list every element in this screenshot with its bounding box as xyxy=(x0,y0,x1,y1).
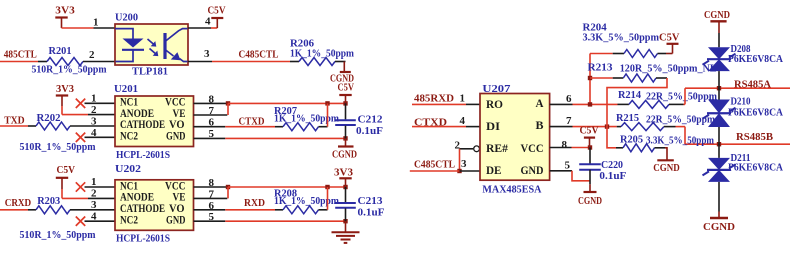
U200 phototransistor xyxy=(163,33,166,59)
U202 pin8 wire to 3V3 rail xyxy=(194,186,228,188)
svg-text:1K_1%_50ppm: 1K_1%_50ppm xyxy=(274,195,339,207)
svg-text:22R_5%_50ppm: 22R_5%_50ppm xyxy=(646,114,715,126)
svg-text:3.3K_5%_50ppm: 3.3K_5%_50ppm xyxy=(646,135,714,147)
ground CGND (C220) xyxy=(589,184,591,191)
U202 pin5 wire to ground rail xyxy=(194,220,226,222)
svg-text:1K_1%_50ppm: 1K_1%_50ppm xyxy=(290,48,354,60)
svg-text:2: 2 xyxy=(89,50,95,61)
wire D208 to RS485A xyxy=(718,71,720,99)
svg-text:0.1uF: 0.1uF xyxy=(599,170,626,182)
svg-text:R202: R202 xyxy=(37,112,61,124)
wire 485CTL xyxy=(0,61,38,63)
svg-text:3: 3 xyxy=(91,117,97,128)
wire 485RXD to U207 pin1 xyxy=(412,103,466,105)
svg-text:RS485B: RS485B xyxy=(736,131,774,143)
svg-text:22R_5%_50ppm: 22R_5%_50ppm xyxy=(646,91,717,103)
svg-text:R201: R201 xyxy=(49,45,72,57)
svg-text:4: 4 xyxy=(205,16,211,27)
U201 pin6 CTXD wire xyxy=(194,126,226,128)
svg-text:MAX485ESA: MAX485ESA xyxy=(482,184,541,196)
earth ground (U202) xyxy=(345,221,347,232)
power 3V3 (U200 pin1) xyxy=(55,16,67,18)
svg-text:U202: U202 xyxy=(115,163,142,175)
wire R207 up to C5V rail xyxy=(327,103,329,126)
svg-text:120R_5%_50ppm_NL: 120R_5%_50ppm_NL xyxy=(620,63,717,75)
U201 pin8 wire to C5V rail xyxy=(194,102,228,104)
svg-text:R213: R213 xyxy=(588,62,614,74)
wire TXD xyxy=(0,125,28,127)
svg-text:8: 8 xyxy=(562,140,568,151)
TVS diode D210 P6KE6V8CA xyxy=(708,100,730,114)
svg-text:4: 4 xyxy=(91,211,97,222)
svg-text:485RXD: 485RXD xyxy=(414,93,454,105)
svg-text:GND: GND xyxy=(166,213,186,227)
power 3V3 (U201) xyxy=(56,94,68,96)
svg-text:C5V: C5V xyxy=(338,81,355,93)
svg-text:R203: R203 xyxy=(37,195,60,207)
wire D211 to CGND xyxy=(718,182,720,212)
TVS diode D208 P6KE6V8CA xyxy=(708,47,730,59)
svg-text:510R_1%_50ppm: 510R_1%_50ppm xyxy=(20,141,96,153)
svg-text:HCPL-2601S: HCPL-2601S xyxy=(116,149,170,161)
ground CGND of R206 xyxy=(343,62,345,72)
svg-text:2: 2 xyxy=(91,189,97,200)
svg-text:R205: R205 xyxy=(620,134,643,146)
svg-text:P6KE6V8CA: P6KE6V8CA xyxy=(728,162,783,174)
svg-text:C485CTL: C485CTL xyxy=(239,48,279,60)
svg-text:1: 1 xyxy=(460,94,466,105)
svg-text:3: 3 xyxy=(204,49,210,60)
svg-text:C5V: C5V xyxy=(580,125,599,137)
svg-text:B: B xyxy=(536,118,544,132)
capacitor C220 0.1uF xyxy=(589,148,591,165)
svg-text:R214: R214 xyxy=(618,89,641,101)
power C5V (R204) xyxy=(672,44,674,54)
wire D210 to D211 / RS485B xyxy=(718,127,720,158)
ground CGND (bottom of D211) xyxy=(718,212,720,218)
svg-text:2: 2 xyxy=(91,105,97,116)
svg-text:U201: U201 xyxy=(114,83,138,95)
wire R213 to B net xyxy=(607,78,667,148)
svg-text:3.3K_5%_50ppm: 3.3K_5%_50ppm xyxy=(583,32,660,44)
wire RS485A xyxy=(685,87,790,89)
svg-text:1K_1%_50ppm: 1K_1%_50ppm xyxy=(274,113,339,125)
svg-text:TLP181: TLP181 xyxy=(132,66,168,78)
svg-text:C5V: C5V xyxy=(659,32,679,44)
svg-text:4: 4 xyxy=(91,128,97,139)
svg-text:3V3: 3V3 xyxy=(55,5,75,17)
svg-text:HCPL-2601S: HCPL-2601S xyxy=(116,233,170,245)
U202 pin7 wire tied to pin8 xyxy=(194,197,228,199)
svg-text:VCC: VCC xyxy=(521,141,544,155)
U202 pin6 RXD wire xyxy=(194,209,226,211)
svg-text:C5V: C5V xyxy=(57,164,76,176)
no-connect X U201 pin4 xyxy=(76,133,85,142)
wire CTXD to U207 pin4 xyxy=(412,126,466,128)
svg-text:P6KE6V8CA: P6KE6V8CA xyxy=(728,53,783,65)
wire R208 up to 3V3 rail xyxy=(327,187,329,210)
TVS diode D211 P6KE6V8CA xyxy=(708,158,730,170)
svg-text:TXD: TXD xyxy=(4,114,25,126)
svg-text:7: 7 xyxy=(566,116,572,127)
wire C485CTL to U207 pin3 xyxy=(410,170,460,172)
ground CGND (U201) xyxy=(345,138,347,146)
svg-text:NC2: NC2 xyxy=(120,129,138,143)
svg-text:CGND: CGND xyxy=(704,9,730,21)
svg-text:1: 1 xyxy=(91,94,97,105)
capacitor C213 0.1uF xyxy=(345,187,347,202)
svg-text:CGND: CGND xyxy=(653,162,680,174)
svg-text:6: 6 xyxy=(566,94,572,105)
svg-text:GND: GND xyxy=(166,129,186,143)
svg-text:CTXD: CTXD xyxy=(239,115,265,127)
no-connect X U202 pin1 xyxy=(76,182,85,191)
C5V rail U201 xyxy=(228,102,346,104)
no-connect X U201 pin1 xyxy=(76,99,85,108)
U200 light arrows xyxy=(148,39,155,45)
svg-text:4: 4 xyxy=(460,116,466,127)
svg-text:1: 1 xyxy=(91,177,97,188)
svg-text:U200: U200 xyxy=(115,12,138,24)
svg-text:5: 5 xyxy=(565,160,571,171)
wire CRXD xyxy=(0,209,28,211)
U201 pin5 wire to CGND rail xyxy=(194,137,226,139)
svg-text:485CTL: 485CTL xyxy=(4,48,37,60)
wire pin2 tied to pin3 xyxy=(459,149,461,171)
power C5V (U202) xyxy=(56,177,68,179)
wire C5V to U202 pin2 xyxy=(62,197,88,199)
svg-text:C485CTL: C485CTL xyxy=(414,158,455,170)
svg-text:0.1uF: 0.1uF xyxy=(356,125,383,137)
wire 3V3 to U201 pin2 xyxy=(62,114,88,116)
svg-text:3V3: 3V3 xyxy=(56,83,74,95)
svg-text:R215: R215 xyxy=(616,112,639,124)
wire RS485B xyxy=(685,143,790,145)
svg-text:1: 1 xyxy=(93,18,99,29)
svg-text:CGND: CGND xyxy=(703,221,735,233)
wire R201 to U200 pin 2 xyxy=(83,61,115,63)
svg-text:DE: DE xyxy=(486,163,502,177)
svg-text:510R_1%_50ppm: 510R_1%_50ppm xyxy=(32,64,107,76)
wire 3V3 to U200 pin 1 xyxy=(62,27,94,29)
svg-text:3: 3 xyxy=(91,200,97,211)
svg-text:GND: GND xyxy=(521,163,544,177)
3V3 rail U202 xyxy=(228,186,346,188)
wire R214 up to RS485A xyxy=(684,88,686,104)
svg-text:C212: C212 xyxy=(358,114,384,126)
svg-text:C213: C213 xyxy=(358,195,384,207)
svg-text:P6KE6V8CA: P6KE6V8CA xyxy=(728,106,783,118)
capacitor C212 0.1uF xyxy=(345,103,347,119)
wire A-vertical (R204/R213 to A) xyxy=(589,54,591,105)
svg-text:3V3: 3V3 xyxy=(334,167,353,179)
svg-text:NC2: NC2 xyxy=(120,213,138,227)
no-connect X U202 pin4 xyxy=(76,217,85,226)
svg-text:CGND: CGND xyxy=(332,149,357,161)
svg-text:C5V: C5V xyxy=(208,5,226,17)
U201 pin7 wire tied to pin8 xyxy=(194,114,228,116)
svg-text:510R_1%_50ppm: 510R_1%_50ppm xyxy=(20,229,96,241)
svg-text:0.1uF: 0.1uF xyxy=(358,207,385,219)
ground CGND (R205) xyxy=(665,148,667,160)
svg-text:RE#: RE# xyxy=(486,141,508,155)
svg-text:DI: DI xyxy=(486,119,500,133)
svg-text:CGND: CGND xyxy=(578,195,602,207)
svg-text:RXD: RXD xyxy=(244,197,265,209)
svg-text:A: A xyxy=(536,96,544,110)
svg-text:CRXD: CRXD xyxy=(5,197,32,209)
wire R215 down to RS485B xyxy=(684,127,686,145)
svg-text:3: 3 xyxy=(461,159,467,170)
U200 internal LED xyxy=(115,29,133,39)
svg-text:RO: RO xyxy=(486,97,503,111)
